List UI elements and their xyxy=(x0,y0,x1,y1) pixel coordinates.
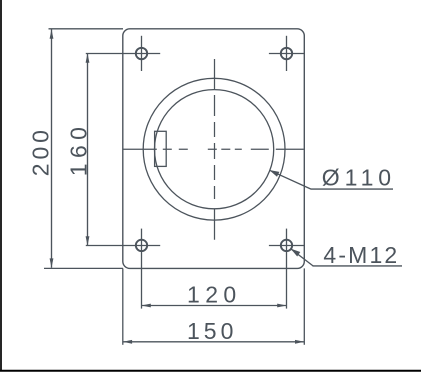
dim 120 arrow right xyxy=(277,304,287,308)
inner circle (bore D110) xyxy=(155,90,274,209)
hole BR horizontal centerline xyxy=(269,245,304,247)
leader line for 4-M12 xyxy=(291,249,313,266)
dim 200 top extension line xyxy=(49,28,124,30)
leader 4-M12 arrowhead xyxy=(291,249,301,257)
plate outline (rounded square flange) xyxy=(123,29,304,269)
hole TR vertical centerline xyxy=(286,36,288,71)
dim 120 arrow left xyxy=(141,304,151,308)
hole M12 bottom-right xyxy=(281,240,292,251)
frame left border xyxy=(0,0,2,371)
vertical center line xyxy=(214,59,216,240)
hole BL horizontal centerline / 160 bottom extension xyxy=(86,245,160,247)
dim 200 arrow down xyxy=(50,258,54,268)
hole BL vertical centerline / 120 left extension xyxy=(141,229,143,309)
dim 200 bottom extension line xyxy=(44,267,123,269)
frame bottom border xyxy=(0,370,421,372)
dim 160 arrow up xyxy=(86,53,90,63)
hole M12 top-right xyxy=(281,48,292,59)
dim 150 arrow right xyxy=(295,340,305,344)
leader line for D110 xyxy=(269,170,311,189)
leader D110 underline xyxy=(311,188,393,190)
hole M12 top-left xyxy=(136,48,147,59)
dim 160 arrow down xyxy=(86,236,90,246)
hole BR vertical centerline / 120 right extension xyxy=(286,229,288,309)
dim 150 right extension line (plate right edge extended) xyxy=(303,268,305,344)
dim 150 left extension line (plate left edge extended) xyxy=(122,268,124,344)
dim 150 arrow left xyxy=(123,340,133,344)
dim 200 arrow up xyxy=(50,29,54,39)
leader 4-M12 underline xyxy=(313,265,403,267)
svg-text:150: 150 xyxy=(187,318,237,344)
hole M12 bottom-left xyxy=(136,240,147,251)
dim 150 dimension line xyxy=(123,341,304,343)
hole TL horizontal centerline / 160 top extension xyxy=(86,53,160,55)
svg-text:Ø110: Ø110 xyxy=(322,165,396,191)
svg-text:4-M12: 4-M12 xyxy=(323,242,399,268)
hole TL vertical centerline xyxy=(141,36,143,71)
leader D110 arrowhead xyxy=(269,170,279,177)
dim 200 dimension line xyxy=(51,30,53,268)
svg-text:120: 120 xyxy=(187,282,242,308)
horizontal center line xyxy=(123,148,304,150)
svg-text:200: 200 xyxy=(27,126,53,176)
hole TR horizontal centerline xyxy=(269,53,304,55)
dim 120 dimension line xyxy=(142,305,287,307)
dim 160 dimension line xyxy=(87,54,89,246)
outer circle (bore boss) xyxy=(143,78,285,220)
svg-text:160: 160 xyxy=(65,122,91,177)
keyway slot xyxy=(155,131,167,166)
